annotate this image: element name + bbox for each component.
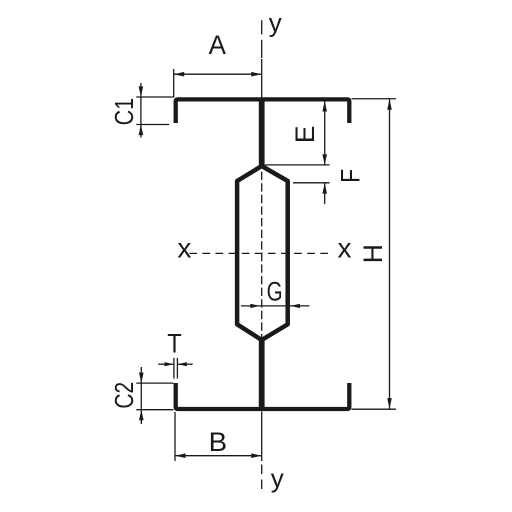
arrowhead H top (points up) <box>387 99 392 110</box>
arrowhead A left <box>174 72 185 77</box>
dimension C2 line <box>140 367 142 424</box>
arrowhead B right <box>251 453 262 458</box>
svg-text:T: T <box>167 328 182 358</box>
svg-text:C2: C2 <box>109 382 139 409</box>
arrowhead H bottom (points down) <box>387 398 392 409</box>
dimension C2 top extension line <box>136 382 173 384</box>
arrowhead T right (points left) <box>178 362 187 366</box>
web upper segment <box>259 98 265 166</box>
dimension H bottom extension line <box>352 408 396 410</box>
dimension A extension line <box>173 69 175 98</box>
dimension C1 bottom extension line <box>136 124 169 126</box>
dimension C1 top extension line <box>136 96 173 98</box>
web lower segment <box>259 340 265 411</box>
arrowhead C2 top (points down) <box>139 373 144 384</box>
y centerline bottom dashed <box>261 465 263 491</box>
svg-text:F: F <box>335 169 365 183</box>
arrowhead B left <box>175 453 186 458</box>
arrowhead F (points up) <box>322 183 327 194</box>
arrowhead A right <box>251 72 262 77</box>
svg-text:E: E <box>290 126 320 144</box>
bottom flange with lips <box>176 383 350 409</box>
dimension F leader line below <box>324 183 326 204</box>
arrowhead E top (points up) <box>322 101 327 112</box>
x centerline dashed <box>189 252 332 254</box>
top flange with lips <box>176 99 350 123</box>
svg-text:H: H <box>358 244 388 263</box>
dimension H line <box>389 99 391 408</box>
hexagonal web opening left half <box>237 166 262 340</box>
arrowhead C1 top (points down) <box>139 86 144 97</box>
dimension T left line <box>158 363 173 365</box>
hexagonal web opening right half <box>262 166 288 340</box>
dimension F extension line at shoulder <box>293 182 330 184</box>
arrowhead C1 bottom (points up) <box>139 125 144 136</box>
arrowhead T left (points right) <box>165 362 174 366</box>
arrowhead C2 bottom (points up) <box>139 410 144 421</box>
E/F shared extension line at web fork <box>265 164 330 166</box>
svg-text:x: x <box>177 232 191 263</box>
svg-text:y: y <box>271 463 284 493</box>
y centerline solid segment (A extension) <box>261 59 263 98</box>
dimension G line <box>241 305 310 307</box>
arrowhead G right (points left) <box>290 304 300 308</box>
svg-text:x: x <box>338 232 352 263</box>
dimension C2 bottom extension line <box>136 409 173 411</box>
dimension C1 line <box>140 83 142 138</box>
dimension H top extension line <box>352 98 396 100</box>
dimension E line <box>324 101 326 165</box>
dimension B extension line <box>174 412 176 461</box>
arrowhead E bottom (points down) <box>322 154 327 165</box>
dimension B line <box>175 455 262 457</box>
svg-text:y: y <box>269 8 282 38</box>
y centerline solid segment (B extension) <box>261 412 263 462</box>
dimension T right extension line <box>176 358 178 379</box>
dimension T left extension line <box>173 358 175 379</box>
svg-text:B: B <box>209 427 228 457</box>
dimension A line <box>174 73 262 75</box>
y centerline top dashed <box>261 20 263 34</box>
y centerline dashed through profile <box>261 102 263 407</box>
arrowhead G left (points right) <box>250 304 259 308</box>
svg-text:A: A <box>209 30 226 60</box>
svg-text:C1: C1 <box>109 98 139 126</box>
dimension T right line <box>178 363 193 365</box>
svg-text:G: G <box>267 277 283 307</box>
